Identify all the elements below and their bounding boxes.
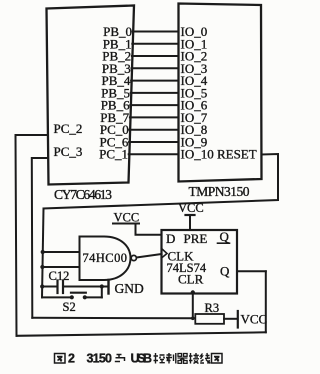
wire pin row 6 PB_5 to IO_5 [131, 92, 179, 94]
wire Q output [237, 270, 266, 272]
wire VCC to PRE [189, 215, 191, 230]
wire PC_3 left and down [32, 158, 48, 318]
wire PC_2 left and down [16, 135, 49, 336]
wire to capacitor C12 [42, 286, 57, 288]
wire S2 to junction [85, 296, 102, 298]
wire pin row 4 PB_3 to IO_3 [132, 67, 179, 69]
junction dot NAND input A [41, 250, 45, 254]
wire reset node vertical [42, 209, 44, 298]
CLK input triangle [162, 249, 168, 259]
svg-text:TMPN3150: TMPN3150 [189, 184, 250, 199]
svg-text:CY7C64613: CY7C64613 [54, 187, 112, 202]
caption character jie (connect) [189, 353, 199, 364]
caption character xian (wire) [200, 353, 210, 364]
wire pin row 9 PC_0 to IO_8 [130, 129, 179, 131]
capacitor C12 plate left [56, 281, 58, 294]
junction dot NAND input B [40, 265, 44, 269]
IC U2 TMPN3150 box [179, 4, 262, 182]
wire pin row 5 PB_4 to IO_4 [131, 80, 178, 82]
wire pin row 3 PB_2 to IO_2 [132, 55, 179, 57]
capacitor C12 plate right [62, 281, 64, 294]
svg-text:C12: C12 [49, 269, 70, 283]
svg-text:VCC: VCC [114, 211, 140, 225]
wire R3 to VCC [224, 318, 238, 320]
svg-text:PC_2: PC_2 [54, 121, 83, 136]
svg-text:CLR: CLR [178, 272, 204, 287]
junction dot CLR pin [191, 290, 195, 294]
caption character qi (device) [178, 354, 188, 364]
wire pin row 8 PB_7 to IO_7 [130, 116, 179, 118]
switch S2 contact right [83, 295, 87, 299]
svg-text:2: 2 [68, 352, 75, 366]
caption character zhi (make) [166, 353, 176, 364]
wire C12 to GND junction [64, 286, 109, 288]
IC U4 74LS74 box [162, 230, 238, 294]
svg-text:R3: R3 [205, 301, 220, 315]
wire VCC to D input [136, 224, 162, 235]
switch S2 contact left [70, 295, 74, 299]
wire pin row 7 PB_6 to IO_6 [130, 104, 178, 106]
svg-text:PRE: PRE [184, 231, 208, 246]
NAND output bubble [131, 255, 136, 260]
svg-text:Q: Q [220, 264, 230, 279]
VCC bar for D input [113, 223, 139, 225]
wire NAND input B [42, 266, 79, 268]
svg-text:PC_1: PC_1 [99, 147, 128, 162]
resistor R3 box [195, 314, 224, 324]
svg-text:74HC00: 74HC00 [83, 251, 128, 265]
VCC bar right of R3 [237, 311, 239, 328]
wire NAND output to CLK [137, 254, 162, 258]
svg-text:3150: 3150 [87, 352, 113, 366]
VCC T-bar for PRE [186, 214, 195, 216]
wire PC_3 bottom run to CLR node [32, 317, 193, 320]
wire NAND input A [43, 251, 80, 253]
caption character yu (with) [115, 355, 125, 362]
svg-text:PC_3: PC_3 [54, 144, 83, 159]
junction dot R3 left [191, 317, 195, 321]
caption character kong (control) [154, 353, 165, 364]
caption character tu (figure) left [55, 354, 66, 364]
svg-text:D: D [166, 231, 175, 246]
wire pin row 11 PC_1 to IO_10 RESET [129, 153, 179, 155]
wire bottom run to Q [17, 332, 266, 336]
svg-text:VCC: VCC [178, 201, 204, 215]
wire junction vertical S2 row to C12 row [101, 287, 103, 298]
wire pin row 10 PC_6 to IO_9 [129, 141, 178, 143]
svg-text:USB: USB [131, 352, 153, 366]
svg-text:S2: S2 [63, 300, 76, 314]
Qbar underline [218, 242, 230, 244]
junction dot C12 row left [40, 284, 44, 288]
junction dot GND row [100, 284, 104, 288]
wire pin row 1 PB_0 to IO_0 [133, 31, 179, 33]
IC U1 CY7C64613 box [47, 6, 135, 185]
GND bar [107, 280, 109, 294]
wire pin row 2 PB_1 to IO_1 [132, 43, 178, 45]
NAND gate U3 74HC00 body [80, 237, 131, 281]
wire S2 row left [42, 296, 72, 298]
svg-text:Q: Q [220, 229, 230, 244]
switch S2 bar [71, 292, 86, 294]
wire RESET loop from IO_10 [44, 154, 279, 209]
svg-text:IO_10 RESET: IO_10 RESET [181, 147, 257, 162]
caption character tu (figure) right [212, 354, 223, 364]
wire CLR to R3 row [192, 293, 194, 319]
wire Q vertical [265, 271, 267, 332]
svg-text:VCC: VCC [241, 312, 268, 327]
svg-text:GND: GND [115, 281, 144, 296]
